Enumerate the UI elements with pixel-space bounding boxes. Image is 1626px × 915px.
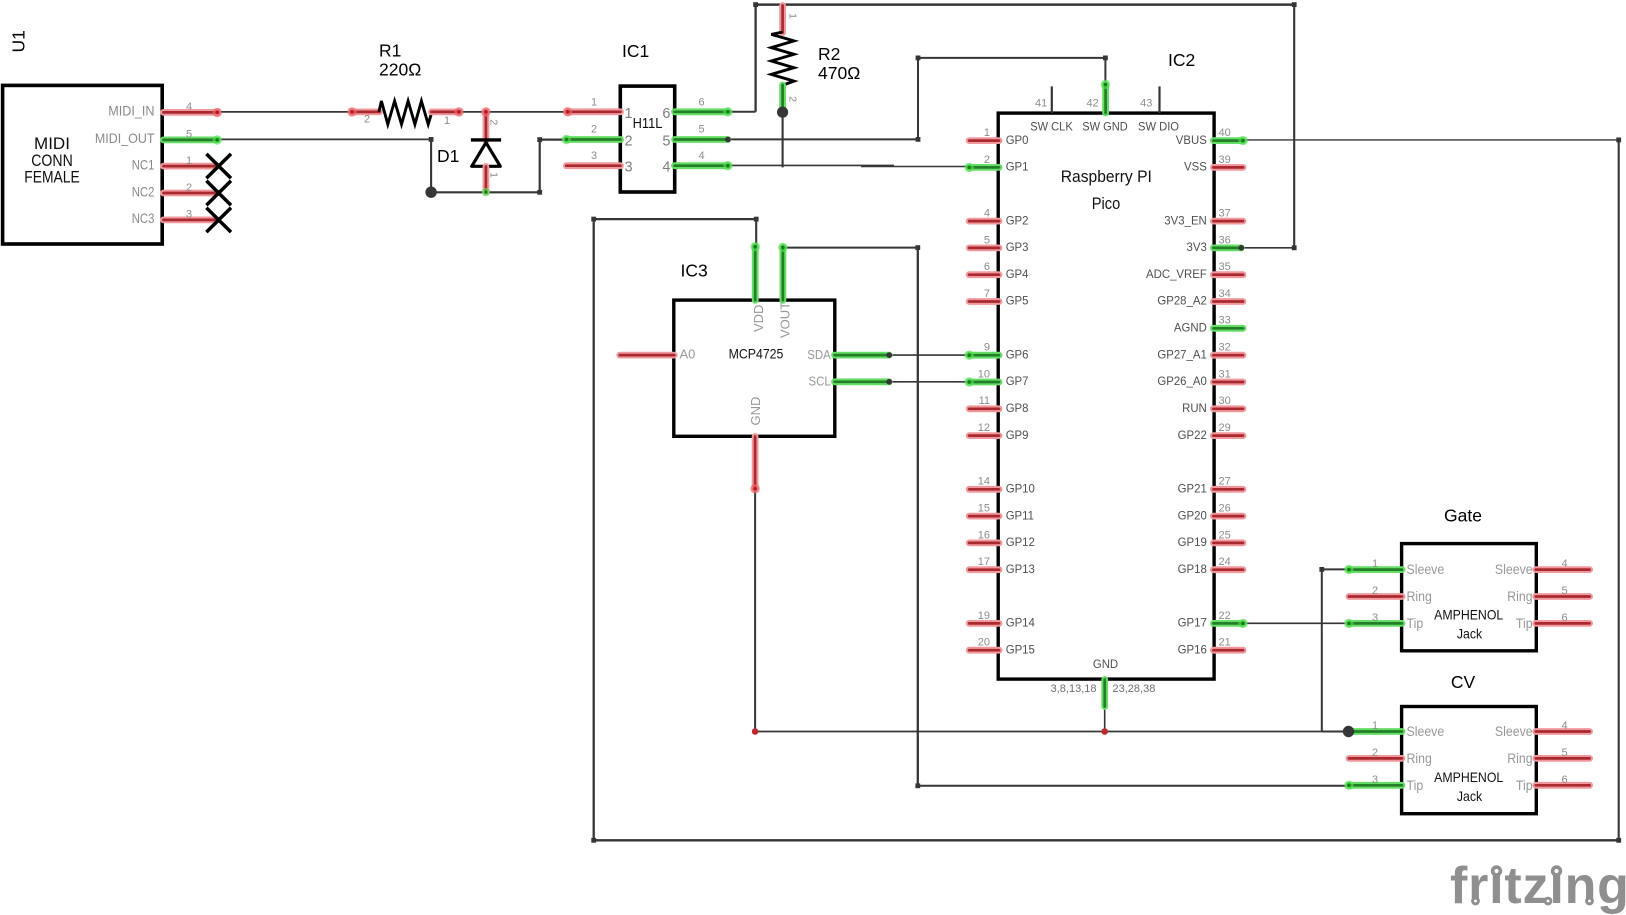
svg-text:5: 5 xyxy=(698,124,704,136)
junction corner 3V3 rail top-left xyxy=(753,2,758,7)
wire IC1 pin6 to top rail xyxy=(728,111,756,113)
junction corner VBUS wire right xyxy=(1616,138,1621,143)
IC2 pin 21 GP16 xyxy=(1213,647,1243,654)
svg-text:3: 3 xyxy=(1372,612,1378,624)
svg-text:2: 2 xyxy=(364,114,370,126)
svg-text:MIDI_OUT: MIDI_OUT xyxy=(95,130,155,146)
Gate jack pin 5 Ring right xyxy=(1536,593,1590,600)
IC3 pin VDD leg xyxy=(752,247,759,301)
svg-text:5: 5 xyxy=(662,134,670,150)
wire D1 loop to IC1 pin2 xyxy=(540,139,567,141)
svg-text:2: 2 xyxy=(1372,747,1378,759)
endpoint IC2 pin42 xyxy=(1101,80,1110,89)
svg-text:19: 19 xyxy=(978,610,990,622)
endpoint R1 pin 2 xyxy=(347,107,356,116)
wire VDD stub xyxy=(755,219,757,246)
Gate jack pin 2 Ring left xyxy=(1349,593,1402,600)
wire 3V3 top rail horizontal xyxy=(756,3,1295,6)
svg-text:GP5: GP5 xyxy=(1006,294,1029,308)
endpoint D1 anode xyxy=(482,188,490,196)
IC2 pin 27 GP21 xyxy=(1213,486,1243,493)
svg-text:43: 43 xyxy=(1140,98,1152,110)
IC2 pin 1 GP0 xyxy=(969,137,999,144)
endpoint IC3 GND xyxy=(750,484,759,493)
IC2 pin 11 GP8 xyxy=(969,405,999,412)
svg-text:1: 1 xyxy=(984,127,990,139)
svg-text:3V3_EN: 3V3_EN xyxy=(1164,213,1207,227)
svg-text:GP1: GP1 xyxy=(1006,160,1029,174)
svg-text:AGND: AGND xyxy=(1174,321,1207,335)
svg-text:GP10: GP10 xyxy=(1006,482,1036,496)
junction SCL wire xyxy=(886,379,892,385)
svg-text:IC1: IC1 xyxy=(622,41,649,61)
Gate jack pin 3 Tip left xyxy=(1349,620,1402,627)
IC2 pin 30 RUN xyxy=(1213,405,1243,412)
junction corner VBUS rail bottom-right xyxy=(1616,838,1621,843)
svg-text:GP14: GP14 xyxy=(1006,616,1036,630)
svg-text:SW DIO: SW DIO xyxy=(1138,120,1179,134)
CV jack pin 2 Ring left xyxy=(1349,755,1402,762)
svg-text:23,28,38: 23,28,38 xyxy=(1113,683,1156,695)
svg-text:6: 6 xyxy=(698,97,704,109)
svg-text:37: 37 xyxy=(1219,208,1231,220)
endpoint CV Tip xyxy=(1344,781,1353,790)
resistor R1 lead 2 xyxy=(352,109,380,116)
svg-text:40: 40 xyxy=(1219,127,1231,139)
CV jack pin 5 Ring right xyxy=(1536,755,1590,762)
svg-text:3: 3 xyxy=(625,160,633,176)
wire GP17 to Gate Tip xyxy=(1243,622,1349,624)
junction corner 3V3 rail top-right xyxy=(1292,2,1297,7)
wire D1 loop vertical left xyxy=(430,139,432,192)
svg-text:GP4: GP4 xyxy=(1006,267,1029,281)
svg-text:Pico: Pico xyxy=(1092,194,1121,213)
junction IC1 pin5 wire xyxy=(725,137,731,143)
endpoint VDD xyxy=(751,242,760,251)
IC2 pin 17 GP13 xyxy=(969,566,999,573)
svg-text:GP13: GP13 xyxy=(1006,562,1036,576)
wire Gate Sleeve to CV Sleeve junction xyxy=(1322,731,1348,733)
IC2 pin 4 GP2 xyxy=(969,218,999,225)
connector U1 pin 4 MIDI_IN xyxy=(164,109,218,116)
wire D1 loop bottom xyxy=(430,191,540,193)
svg-text:Sleeve: Sleeve xyxy=(1495,723,1533,739)
IC2 pin 40 VBUS xyxy=(1213,137,1243,144)
svg-text:5: 5 xyxy=(1561,585,1567,597)
svg-text:3: 3 xyxy=(591,150,597,162)
resistor R2 body xyxy=(771,32,794,85)
wire IC1 pin5 to SW GND horizontal xyxy=(728,138,918,140)
Gate jack pin 4 Sleeve right xyxy=(1536,566,1590,573)
junction corner SW GND wire above pin 42 xyxy=(1103,56,1108,61)
junction corner CV Tip wire corner xyxy=(915,783,920,788)
wire IC1 pin4 to GP1 segment A xyxy=(728,164,894,166)
wire SW GND drop to pin 42 xyxy=(1104,58,1106,84)
IC2 pin 10 GP7 xyxy=(969,379,999,386)
svg-text:5: 5 xyxy=(984,234,990,246)
IC2 pin 7 GP5 xyxy=(969,298,999,305)
IC1 pin 3 leg xyxy=(566,162,620,169)
junction corner SW GND wire top xyxy=(916,56,921,61)
wire VBUS bottom rail xyxy=(594,839,1619,841)
connector U1 pin 3 NC3 xyxy=(164,216,218,223)
junction corner VOUT wire corner xyxy=(915,245,920,250)
svg-text:Tip: Tip xyxy=(1516,777,1533,793)
svg-text:AMPHENOL: AMPHENOL xyxy=(1434,606,1503,622)
IC2 pin 14 GP10 xyxy=(969,486,999,493)
wire VBUS horizontal xyxy=(1243,139,1619,141)
svg-text:2: 2 xyxy=(1372,585,1378,597)
IC2 pin 20 GP15 xyxy=(969,647,999,654)
connector U1 MIDI CONN FEMALE body xyxy=(3,85,163,244)
svg-text:33: 33 xyxy=(1219,315,1231,327)
CV jack pin 3 Tip left xyxy=(1349,782,1402,789)
wire VOUT vertical down xyxy=(917,248,919,786)
svg-text:SCL: SCL xyxy=(809,374,831,389)
svg-text:GP19: GP19 xyxy=(1178,535,1208,549)
svg-text:Tip: Tip xyxy=(1516,615,1533,631)
microcontroller IC2 Raspberry PI Pico body xyxy=(998,113,1214,679)
svg-text:GP8: GP8 xyxy=(1006,401,1029,415)
node CV Sleeve / GND junction xyxy=(1343,726,1354,737)
wire R1 to IC1 pin1 xyxy=(459,111,568,113)
svg-text:GP26_A0: GP26_A0 xyxy=(1157,374,1207,388)
IC2 pin 25 GP19 xyxy=(1213,540,1243,547)
diode D1 cathode bar xyxy=(471,138,501,141)
endpoint MIDI_IN xyxy=(213,108,222,117)
optocoupler IC1 H11L body xyxy=(620,86,674,192)
svg-text:12: 12 xyxy=(978,422,990,434)
endpoint IC1 pin2 xyxy=(562,135,571,144)
svg-text:Tip: Tip xyxy=(1407,615,1424,631)
wire IC2 GND stub xyxy=(1104,707,1106,732)
IC2 pin 5 GP3 xyxy=(969,244,999,251)
IC1 pin 6 leg xyxy=(675,108,728,115)
svg-text:VBUS: VBUS xyxy=(1176,133,1207,147)
svg-text:Jack: Jack xyxy=(1457,788,1483,804)
svg-text:GP12: GP12 xyxy=(1006,535,1036,549)
wire MIDI_OUT to D1 loop horizontal xyxy=(216,138,431,140)
endpoint IC1 pin4 xyxy=(723,161,732,170)
svg-text:SDA: SDA xyxy=(807,347,831,362)
svg-text:GP15: GP15 xyxy=(1006,642,1036,656)
IC2 pin 15 GP11 xyxy=(969,513,999,520)
IC2 pin 16 GP12 xyxy=(969,540,999,547)
svg-text:GP6: GP6 xyxy=(1006,347,1029,361)
junction corner Gate Sleeve wire corner xyxy=(1319,567,1324,572)
IC2 pin 29 GP22 xyxy=(1213,432,1243,439)
svg-text:frıtzıng: frıtzıng xyxy=(1450,857,1626,915)
IC2 pin 34 GP28_A2 xyxy=(1213,298,1243,305)
wire SCL to GP7 xyxy=(889,381,969,383)
svg-text:10: 10 xyxy=(978,368,990,380)
IC2 pin 37 3V3_EN xyxy=(1213,218,1243,225)
svg-text:39: 39 xyxy=(1219,154,1231,166)
resistor R1 body xyxy=(379,101,432,124)
svg-text:MIDI_IN: MIDI_IN xyxy=(108,103,154,119)
svg-text:1: 1 xyxy=(591,97,597,109)
IC3 pin GND leg xyxy=(752,437,759,489)
svg-text:1: 1 xyxy=(1372,720,1378,732)
svg-text:MCP4725: MCP4725 xyxy=(729,346,784,362)
svg-text:36: 36 xyxy=(1219,234,1231,246)
resistor R2 lead 1 (top) xyxy=(779,6,786,33)
IC2 pin 12 GP9 xyxy=(969,432,999,439)
svg-text:9: 9 xyxy=(984,342,990,354)
diode D1 anode lead (pin 1) xyxy=(482,167,489,192)
svg-text:GND: GND xyxy=(748,397,763,426)
svg-text:GP16: GP16 xyxy=(1178,642,1208,656)
svg-text:22: 22 xyxy=(1219,610,1231,622)
IC2 pin 24 GP18 xyxy=(1213,566,1243,573)
svg-text:1: 1 xyxy=(444,115,450,127)
svg-text:31: 31 xyxy=(1219,368,1231,380)
svg-text:IC3: IC3 xyxy=(681,261,708,281)
svg-text:D1: D1 xyxy=(437,146,459,166)
wire VBUS to VDD horizontal xyxy=(594,218,757,220)
CV jack pin 1 Sleeve left xyxy=(1349,728,1402,735)
svg-text:21: 21 xyxy=(1219,637,1231,649)
svg-text:5: 5 xyxy=(1561,747,1567,759)
Gate jack pin 1 Sleeve left xyxy=(1349,566,1402,573)
diode D1 triangle xyxy=(472,143,501,167)
wire IC3 GND vertical xyxy=(754,489,756,732)
svg-text:GP20: GP20 xyxy=(1178,508,1208,522)
node IC3 GND rail junction xyxy=(752,728,759,735)
svg-text:11: 11 xyxy=(979,395,990,407)
wire SW GND top horizontal xyxy=(918,57,1105,59)
svg-text:GP21: GP21 xyxy=(1178,482,1208,496)
svg-text:2: 2 xyxy=(488,119,500,125)
junction corner D1 loop bottom-right xyxy=(537,190,542,195)
wire Gate Sleeve vertical xyxy=(1321,569,1323,731)
wire VBUS right vertical xyxy=(1618,140,1620,840)
svg-text:Gate: Gate xyxy=(1444,506,1482,526)
svg-text:GP22: GP22 xyxy=(1178,428,1208,442)
svg-text:IC2: IC2 xyxy=(1168,50,1195,70)
svg-text:U1: U1 xyxy=(9,30,29,52)
wire Gate Sleeve horizontal xyxy=(1322,568,1349,570)
svg-text:2: 2 xyxy=(984,154,990,166)
svg-text:1: 1 xyxy=(787,13,799,19)
connector U1 pin 2 NC2 xyxy=(164,190,218,197)
IC1 pin 1 leg xyxy=(568,108,621,115)
junction corner 3V3 rail bottom xyxy=(1292,245,1297,250)
svg-text:15: 15 xyxy=(978,503,990,515)
svg-text:3,8,13,18: 3,8,13,18 xyxy=(1051,683,1097,695)
svg-text:A0: A0 xyxy=(680,347,696,362)
svg-text:FEMALE: FEMALE xyxy=(24,167,80,186)
IC2 pin 36 3V3 xyxy=(1213,244,1241,251)
IC2 pin 6 GP4 xyxy=(969,271,999,278)
diode D1 cathode lead (pin 2) xyxy=(482,112,489,141)
svg-text:4: 4 xyxy=(1561,558,1567,570)
svg-text:20: 20 xyxy=(978,637,990,649)
svg-text:Sleeve: Sleeve xyxy=(1407,723,1445,739)
junction R2 bottom node xyxy=(777,107,788,118)
junction SDA wire xyxy=(886,352,892,358)
Gate jack pin 6 Tip right xyxy=(1536,620,1590,627)
connector CV AMPHENOL Jack body xyxy=(1402,707,1537,814)
IC2 pin 19 GP14 xyxy=(969,620,999,627)
svg-text:3V3: 3V3 xyxy=(1187,240,1208,254)
svg-text:42: 42 xyxy=(1086,98,1098,110)
svg-text:27: 27 xyxy=(1219,476,1231,488)
svg-text:470Ω: 470Ω xyxy=(818,63,860,83)
svg-text:3: 3 xyxy=(186,209,192,221)
endpoint MIDI_OUT xyxy=(213,135,222,144)
endpoint D1 cathode xyxy=(481,107,490,116)
IC1 pin 5 leg xyxy=(675,136,728,143)
wire R2 bottom drop to GP1 net xyxy=(782,112,784,167)
svg-text:GP28_A2: GP28_A2 xyxy=(1157,294,1207,308)
svg-text:GP11: GP11 xyxy=(1006,508,1035,522)
svg-text:4: 4 xyxy=(662,160,670,176)
svg-text:32: 32 xyxy=(1219,342,1231,354)
no-connect X on NC3 xyxy=(206,154,231,178)
svg-text:34: 34 xyxy=(1219,288,1231,300)
junction corner MIDI_OUT loop top-left xyxy=(429,137,434,142)
svg-text:2: 2 xyxy=(625,134,633,150)
svg-text:1: 1 xyxy=(488,172,500,178)
wire IC1 pin4 to GP1 segment B xyxy=(861,166,969,168)
svg-text:CV: CV xyxy=(1451,672,1476,692)
IC2 pin 22 GP17 xyxy=(1213,620,1243,627)
wire top rail vertical (pin6 up) xyxy=(754,5,756,112)
svg-text:Sleeve: Sleeve xyxy=(1407,561,1445,577)
IC3 pin SCL leg xyxy=(835,378,890,385)
svg-text:ADC_VREF: ADC_VREF xyxy=(1146,267,1207,281)
svg-text:30: 30 xyxy=(1219,395,1231,407)
junction corner SW GND wire bottom xyxy=(916,137,921,142)
svg-text:14: 14 xyxy=(978,476,990,488)
IC3 pin SDA leg xyxy=(835,352,890,359)
svg-text:GP9: GP9 xyxy=(1006,428,1029,442)
svg-text:GP17: GP17 xyxy=(1178,616,1208,630)
svg-text:1: 1 xyxy=(186,155,192,167)
svg-text:GP27_A1: GP27_A1 xyxy=(1157,347,1207,361)
CV jack pin 6 Tip right xyxy=(1536,782,1590,789)
svg-text:2: 2 xyxy=(787,96,799,102)
junction corner VDD wire top-right xyxy=(754,217,759,222)
IC2 pin 33 AGND xyxy=(1213,325,1243,332)
svg-text:Raspberry PI: Raspberry PI xyxy=(1061,167,1152,186)
svg-text:5: 5 xyxy=(186,129,192,141)
resistor R1 lead 1 xyxy=(432,109,460,116)
IC1 pin 4 leg xyxy=(675,162,728,169)
svg-text:Ring: Ring xyxy=(1507,750,1532,766)
svg-text:220Ω: 220Ω xyxy=(379,60,421,80)
wire VOUT horizontal xyxy=(783,247,918,249)
svg-text:Jack: Jack xyxy=(1457,625,1483,641)
wire VBUS left vertical xyxy=(593,219,595,840)
svg-text:NC2: NC2 xyxy=(132,183,155,199)
svg-text:24: 24 xyxy=(1219,556,1231,568)
CV jack pin 4 Sleeve right xyxy=(1536,728,1590,735)
svg-text:1: 1 xyxy=(1372,558,1378,570)
svg-text:Ring: Ring xyxy=(1407,588,1432,604)
IC2 pin 42 SW GND leg xyxy=(1102,85,1109,114)
svg-text:GND: GND xyxy=(1093,657,1119,671)
IC2 pin 31 GP26_A0 xyxy=(1213,379,1243,386)
svg-text:GP7: GP7 xyxy=(1006,374,1029,388)
svg-text:NC1: NC1 xyxy=(132,156,155,172)
svg-text:16: 16 xyxy=(978,529,990,541)
svg-text:VDD: VDD xyxy=(751,305,766,332)
svg-text:6: 6 xyxy=(1561,612,1567,624)
IC3 pin A0 leg xyxy=(620,352,674,359)
svg-text:Ring: Ring xyxy=(1407,750,1432,766)
junction corner VDD wire top-left xyxy=(591,217,596,222)
svg-text:26: 26 xyxy=(1219,503,1231,515)
svg-text:3: 3 xyxy=(1372,774,1378,786)
svg-text:4: 4 xyxy=(984,208,990,220)
IC2 pin 43 SW DIO stub xyxy=(1158,86,1160,113)
IC2 pin 41 SW CLK stub xyxy=(1051,86,1053,113)
connector U1 pin 1 NC1 xyxy=(164,163,218,170)
svg-text:Ring: Ring xyxy=(1507,588,1532,604)
svg-text:2: 2 xyxy=(186,182,192,194)
svg-text:6: 6 xyxy=(1561,774,1567,786)
wire SW GND vertical xyxy=(917,58,919,139)
svg-text:25: 25 xyxy=(1219,529,1231,541)
svg-text:4: 4 xyxy=(698,150,704,162)
svg-text:GP18: GP18 xyxy=(1178,562,1208,576)
node D1 anode junction xyxy=(425,187,436,198)
svg-text:Tip: Tip xyxy=(1407,777,1424,793)
svg-text:4: 4 xyxy=(186,101,192,113)
svg-text:GP0: GP0 xyxy=(1006,133,1029,147)
svg-text:1: 1 xyxy=(625,106,633,122)
svg-text:AMPHENOL: AMPHENOL xyxy=(1434,769,1503,785)
svg-text:6: 6 xyxy=(984,261,990,273)
svg-text:H11L: H11L xyxy=(633,116,663,132)
svg-text:GP2: GP2 xyxy=(1006,213,1029,227)
svg-text:4: 4 xyxy=(1561,720,1567,732)
junction corner D1 loop top-right xyxy=(537,137,542,142)
svg-text:R2: R2 xyxy=(818,44,840,64)
svg-text:NC3: NC3 xyxy=(132,210,155,226)
connector Gate AMPHENOL Jack body xyxy=(1402,544,1537,651)
svg-text:35: 35 xyxy=(1219,261,1231,273)
DAC IC3 MCP4725 body xyxy=(674,300,835,436)
IC2 pin 39 VSS xyxy=(1213,164,1243,171)
svg-text:R1: R1 xyxy=(379,41,401,61)
node IC2 GND rail junction xyxy=(1101,728,1108,735)
IC2 pin 26 GP20 xyxy=(1213,513,1243,520)
svg-text:6: 6 xyxy=(662,106,670,122)
svg-text:SW GND: SW GND xyxy=(1082,120,1128,134)
svg-text:17: 17 xyxy=(978,556,990,568)
wire VOUT to CV Tip xyxy=(918,785,1349,787)
connector U1 pin 5 MIDI_OUT xyxy=(164,136,218,143)
IC2 pin 32 GP27_A1 xyxy=(1213,352,1243,359)
IC2 pin 2 GP1 xyxy=(969,164,999,171)
endpoint R1 pin 1 xyxy=(454,107,463,116)
IC2 pin 35 ADC_VREF xyxy=(1213,271,1243,278)
svg-text:7: 7 xyxy=(984,288,990,300)
svg-text:RUN: RUN xyxy=(1182,401,1207,415)
endpoint IC1 pin1 xyxy=(563,107,572,116)
svg-text:SW CLK: SW CLK xyxy=(1030,120,1073,134)
wire MIDI_IN to R1 xyxy=(216,111,353,113)
svg-text:GP3: GP3 xyxy=(1006,240,1029,254)
IC1 pin 2 leg xyxy=(566,136,620,143)
wire SDA to GP6 xyxy=(889,354,969,356)
svg-text:2: 2 xyxy=(591,124,597,136)
wire 3V3 rail to 3V3 pin xyxy=(1241,247,1294,249)
svg-text:41: 41 xyxy=(1035,98,1047,110)
